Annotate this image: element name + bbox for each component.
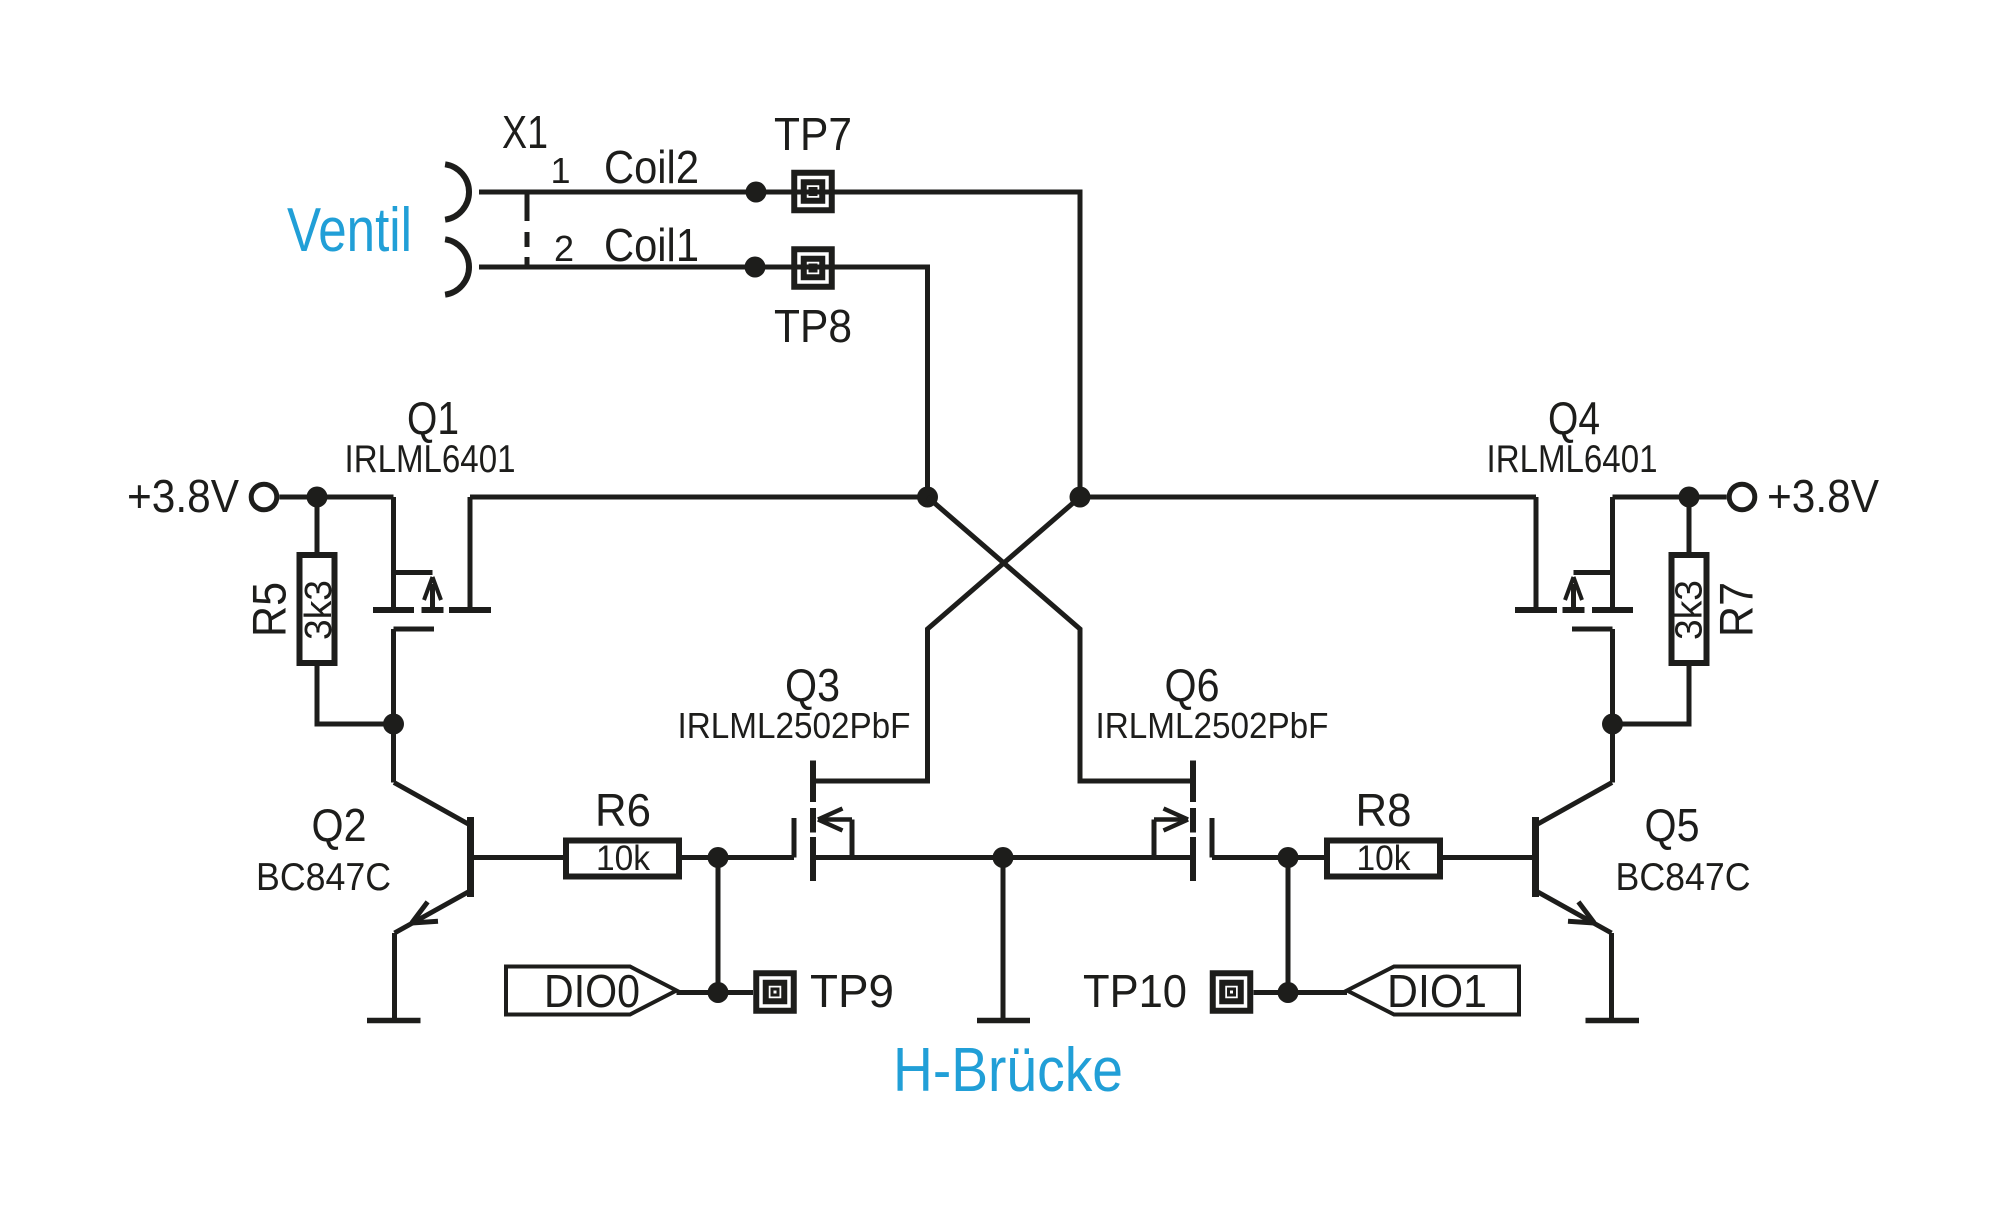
svg-text:Q6: Q6 xyxy=(1165,659,1220,711)
label Q5 xyxy=(1645,799,1700,851)
wire right crossing node to Q4 drain xyxy=(1080,495,1536,500)
value IRLML2502PbF of Q3 xyxy=(678,705,911,746)
junction R6/DIO0/Q3 gate xyxy=(708,847,729,868)
wire right node diagonal to Q3 drain xyxy=(813,497,1080,781)
ground center xyxy=(977,858,1030,1021)
svg-text:Q2: Q2 xyxy=(312,799,367,851)
label R8 xyxy=(1356,784,1412,836)
svg-text:R8: R8 xyxy=(1356,784,1412,836)
label R5 xyxy=(243,582,296,637)
svg-text:Coil1: Coil1 xyxy=(604,219,699,271)
net name Coil2 xyxy=(604,141,699,193)
resistor R8 xyxy=(1212,841,1440,877)
connector X1 label xyxy=(502,106,548,158)
svg-text:TP7: TP7 xyxy=(774,108,852,160)
wire source rail Q3-Q6 xyxy=(813,855,1193,860)
svg-text:3k3: 3k3 xyxy=(1668,580,1710,640)
net name DIO0 xyxy=(544,965,640,1017)
junction R7/Q4 gate/Q5 collector xyxy=(1602,714,1623,735)
svg-text:IRLML6401: IRLML6401 xyxy=(345,438,516,481)
value 3k3 of R5 xyxy=(298,580,340,640)
junction R8/DIO1/Q6 gate xyxy=(1278,847,1299,868)
resistor R5 xyxy=(300,497,394,724)
junction Coil1/TP8 xyxy=(745,257,766,278)
label Q1 xyxy=(407,392,459,444)
transistor Q4 (P-MOSFET) xyxy=(1515,497,1633,724)
svg-text:Coil2: Coil2 xyxy=(604,141,699,193)
flag DIO0 xyxy=(506,967,677,1015)
svg-text:IRLML2502PbF: IRLML2502PbF xyxy=(1096,705,1329,746)
svg-text:+3.8V: +3.8V xyxy=(127,470,239,522)
resistor R7 xyxy=(1613,497,1707,724)
resistor R6 xyxy=(566,841,794,877)
svg-text:3k3: 3k3 xyxy=(298,580,340,640)
junction right crossing node xyxy=(1070,487,1091,508)
junction R5/Q1 gate/Q2 collector xyxy=(383,714,404,735)
pin 2 number xyxy=(554,228,574,269)
svg-text:H-Brücke: H-Brücke xyxy=(893,1036,1123,1105)
wire DIO0 to TP9 xyxy=(677,990,754,995)
label Q2 xyxy=(312,799,367,851)
junction Coil2/TP7 xyxy=(746,182,767,203)
value IRLML2502PbF of Q6 xyxy=(1096,705,1329,746)
svg-text:Ventil: Ventil xyxy=(287,196,412,265)
svg-text:BC847C: BC847C xyxy=(1616,856,1751,899)
svg-text:Q5: Q5 xyxy=(1645,799,1700,851)
wire left node diagonal to Q6 drain xyxy=(928,497,1194,781)
label R6 xyxy=(595,784,651,836)
value IRLML6401 of Q1 xyxy=(345,438,516,481)
junction +3.8V/R7 right xyxy=(1679,487,1700,508)
connector X1 xyxy=(445,164,527,294)
label Q4 xyxy=(1548,392,1600,444)
svg-text:+3.8V: +3.8V xyxy=(1767,470,1879,522)
label Q6 xyxy=(1165,659,1220,711)
net label Ventil xyxy=(287,196,412,265)
junction +3.8V/R5 left xyxy=(307,487,328,508)
wire R8 junction down to TP10 xyxy=(1286,858,1291,993)
wire Coil2 from X1-1 to TP7 and down to crossing xyxy=(479,192,1080,497)
svg-text:Q1: Q1 xyxy=(407,392,459,444)
svg-text:R6: R6 xyxy=(595,784,651,836)
svg-text:TP9: TP9 xyxy=(810,965,894,1017)
value IRLML6401 of Q4 xyxy=(1487,438,1658,481)
test point TP7 xyxy=(774,108,852,210)
wire R6 junction down to TP9 xyxy=(716,858,721,993)
supply terminal +3.8V left xyxy=(127,470,394,522)
label Q3 xyxy=(785,659,840,711)
svg-text:R7: R7 xyxy=(1709,582,1762,637)
ground below Q2 xyxy=(367,1018,421,1024)
net name DIO1 xyxy=(1387,965,1487,1017)
value BC847C of Q5 xyxy=(1616,856,1751,899)
junction left crossing node xyxy=(917,487,938,508)
svg-text:DIO0: DIO0 xyxy=(544,965,640,1017)
svg-text:10k: 10k xyxy=(1357,839,1411,878)
svg-text:10k: 10k xyxy=(596,839,650,878)
value 10k of R6 xyxy=(596,839,650,878)
svg-text:BC847C: BC847C xyxy=(256,856,391,899)
svg-text:Q4: Q4 xyxy=(1548,392,1600,444)
svg-text:TP10: TP10 xyxy=(1083,965,1187,1017)
value BC847C of Q2 xyxy=(256,856,391,899)
svg-text:IRLML2502PbF: IRLML2502PbF xyxy=(678,705,911,746)
test point TP8 xyxy=(774,249,852,352)
svg-text:1: 1 xyxy=(550,150,570,191)
junction source rail / ground xyxy=(993,847,1014,868)
wire Coil1 from X1-2 to TP8 and down to crossing xyxy=(479,267,928,497)
ground below Q5 xyxy=(1586,1018,1640,1024)
pin 1 number xyxy=(550,150,570,191)
svg-text:2: 2 xyxy=(554,228,574,269)
net name Coil1 xyxy=(604,219,699,271)
svg-text:X1: X1 xyxy=(502,106,548,158)
svg-text:R5: R5 xyxy=(243,582,296,637)
svg-text:TP8: TP8 xyxy=(774,300,852,352)
test point TP9 xyxy=(756,965,894,1017)
circuit label H-Bruecke xyxy=(893,1036,1123,1105)
transistor Q6 (N-MOSFET) xyxy=(1154,761,1212,882)
junction TP9 xyxy=(708,982,729,1003)
svg-text:DIO1: DIO1 xyxy=(1387,965,1487,1017)
value 3k3 of R7 xyxy=(1668,580,1710,640)
svg-text:Q3: Q3 xyxy=(785,659,840,711)
flag DIO1 xyxy=(1347,967,1519,1015)
label R7 xyxy=(1709,582,1762,637)
transistor Q5 (NPN) xyxy=(1442,724,1613,1018)
wire Q1 drain to left crossing node xyxy=(470,495,928,500)
transistor Q2 (NPN) xyxy=(394,724,565,1018)
supply terminal +3.8V right xyxy=(1613,470,1880,522)
transistor Q3 (N-MOSFET) xyxy=(794,761,852,882)
test point TP10 xyxy=(1083,965,1250,1017)
svg-text:IRLML6401: IRLML6401 xyxy=(1487,438,1658,481)
transistor Q1 (P-MOSFET) xyxy=(373,497,491,724)
junction TP10 xyxy=(1278,982,1299,1003)
value 10k of R8 xyxy=(1357,839,1411,878)
wire DIO1 to TP10 xyxy=(1254,990,1348,995)
